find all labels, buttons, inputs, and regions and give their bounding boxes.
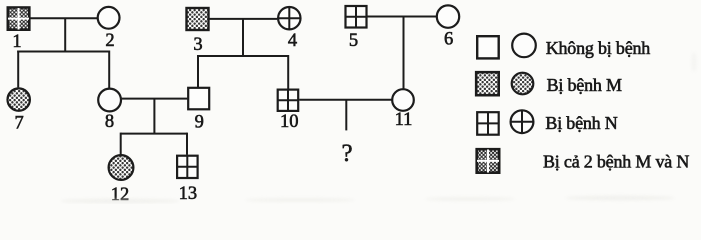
svg-text:Bị cả 2 bệnh M và N: Bị cả 2 bệnh M và N — [543, 151, 689, 171]
svg-text:10: 10 — [280, 112, 299, 132]
wire drop to 8 — [108, 51, 110, 89]
svg-text:1: 1 — [12, 32, 21, 52]
legend circle disease N — [511, 110, 534, 133]
wire drop from couple 5-6 to 11 — [403, 17, 405, 89]
svg-text:8: 8 — [105, 112, 114, 132]
wire drop to 10 — [287, 55, 289, 89]
person 8 female unaffected — [98, 89, 121, 112]
wire couple line 1-2 — [29, 17, 97, 19]
person 10 male disease N — [278, 90, 299, 111]
wire couple line 3-4 — [210, 18, 278, 20]
legend square both diseases — [477, 149, 500, 173]
person 13 male disease N — [177, 156, 198, 178]
svg-text:6: 6 — [444, 30, 453, 50]
legend square disease N — [477, 112, 499, 135]
legend square unaffected — [477, 36, 499, 58]
wire drop to 7 — [17, 51, 19, 88]
wire sibling line children of 8-9 — [121, 133, 187, 135]
svg-text:4: 4 — [288, 31, 297, 51]
faint scan smudges along bottom edge — [60, 52, 697, 203]
svg-text:5: 5 — [349, 31, 358, 51]
wire couple line 5-6 — [368, 16, 437, 18]
person 7 female disease M — [8, 88, 30, 110]
person 11 female unaffected — [392, 89, 414, 111]
svg-text:Không bị bệnh: Không bị bệnh — [546, 38, 651, 58]
person 2 female unaffected — [98, 7, 120, 29]
wire drop to 13 — [186, 133, 188, 155]
person 4 female disease N — [278, 7, 300, 29]
wire drop from couple 8-9 — [153, 99, 155, 134]
person 5 male disease N — [346, 6, 367, 28]
legend circle disease M — [512, 73, 534, 95]
svg-text:13: 13 — [179, 184, 198, 204]
svg-text:2: 2 — [105, 31, 114, 51]
wire sibling line children of 3-4 — [198, 55, 288, 57]
wire drop to 12 — [120, 133, 122, 155]
wire drop from couple 3-4 — [242, 19, 244, 56]
person 3 male disease M — [187, 8, 209, 30]
legend square disease M — [476, 72, 499, 95]
svg-text:7: 7 — [14, 114, 23, 134]
svg-text:Bị bệnh M: Bị bệnh M — [547, 75, 622, 95]
wire couple line 10-11 — [299, 99, 391, 101]
legend circle unaffected — [512, 34, 536, 58]
svg-text:?: ? — [341, 140, 352, 167]
wire couple line 8-9 — [122, 98, 188, 100]
wire drop to 9 — [197, 55, 199, 87]
wire sibling line children of 1-2 — [17, 51, 109, 53]
wire drop from couple 10-11 to ? — [345, 100, 347, 131]
person 9 male unaffected — [188, 88, 209, 110]
wire drop from couple 1-2 — [64, 18, 66, 51]
svg-text:Bị bệnh N: Bị bệnh N — [545, 113, 617, 133]
person 1 male both diseases — [8, 8, 30, 30]
person 6 female unaffected — [437, 5, 459, 27]
svg-text:11: 11 — [395, 110, 413, 130]
person 12 female disease M — [109, 155, 134, 180]
svg-text:3: 3 — [193, 35, 202, 55]
svg-text:9: 9 — [195, 112, 204, 132]
